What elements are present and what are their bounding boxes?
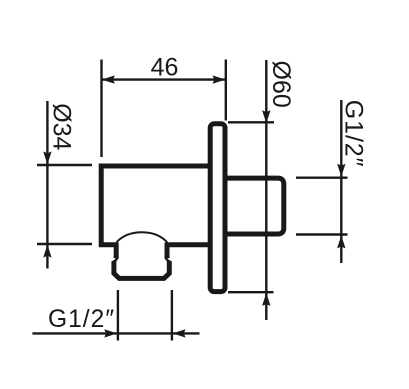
- dimension G1/2 bottom: [32, 290, 199, 341]
- body bottom right segment: [169, 242, 211, 247]
- arrowhead 46 right: [213, 75, 226, 83]
- cup step notch right (white): [167, 256, 172, 261]
- dimension Ø60: [228, 60, 274, 320]
- ext line top: [37, 164, 92, 166]
- ext line right: [171, 290, 173, 341]
- pipe G1/2 male: [225, 178, 284, 234]
- svg-text:46: 46: [151, 53, 179, 81]
- dimension 46: [102, 60, 226, 158]
- svg-text:G1/2″: G1/2″: [339, 100, 367, 168]
- ext line top: [228, 121, 274, 123]
- dim line: [265, 60, 267, 320]
- arrowhead Ø34 up: [43, 245, 51, 258]
- dim line: [32, 332, 199, 334]
- dimension Ø34: [37, 101, 92, 269]
- cup step notch left (white): [111, 256, 116, 261]
- svg-text:Ø60: Ø60: [267, 61, 295, 108]
- svg-text:Ø34: Ø34: [48, 103, 76, 150]
- arrowhead G1/2 right up: [337, 235, 345, 248]
- ext line bottom: [228, 291, 274, 293]
- dimension G1/2 right: [296, 100, 348, 263]
- arrowhead Ø34 down: [43, 152, 51, 165]
- ext line bottom: [37, 243, 92, 245]
- body outline: [101, 166, 211, 245]
- svg-text:G1/2″: G1/2″: [48, 306, 115, 333]
- arrowhead G1/2 bottom pointing right: [104, 329, 117, 337]
- dim line: [46, 101, 48, 269]
- cup (bottom outlet): [114, 243, 169, 279]
- arrowhead 46 left: [102, 75, 115, 83]
- dome arc: [114, 232, 171, 247]
- dim line: [340, 100, 342, 263]
- flange (wall disc): [210, 124, 225, 292]
- arrowhead G1/2 right down: [337, 164, 345, 177]
- ext line left: [117, 290, 119, 341]
- ext line right: [225, 60, 227, 121]
- dim line: [103, 78, 225, 80]
- arrowhead Ø60 up: [262, 293, 270, 306]
- ext line bottom: [296, 233, 348, 235]
- arrowhead Ø60 down: [262, 110, 270, 123]
- ext line top: [296, 176, 348, 178]
- ext line left: [100, 60, 102, 158]
- arrowhead G1/2 bottom pointing left: [173, 329, 186, 337]
